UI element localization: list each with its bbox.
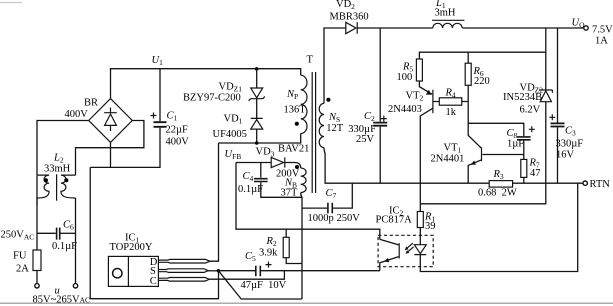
- svg-text:IN5234B: IN5234B: [503, 92, 542, 103]
- resistor R4 leads: [433, 101, 468, 103]
- capacitor C7 wire right to secondary rail: [333, 183, 352, 208]
- dot NB: [295, 165, 299, 169]
- dot L2 left winding: [44, 178, 48, 182]
- svg-text:1000p: 1000p: [308, 213, 334, 224]
- transformer T feedback winding NB: [301, 168, 306, 193]
- bridge rectifier BR: [89, 99, 133, 143]
- resistor R5: [416, 59, 422, 81]
- capacitor C8: [517, 137, 531, 140]
- wire R6 bottom to VT1 collector: [468, 85, 481, 148]
- terminal RTN: [583, 181, 587, 185]
- diode VD1 UF4005: [251, 118, 263, 129]
- wire VD1 bottom lead: [256, 129, 258, 143]
- wire secondary bottom lead and RTN rail left of R3: [324, 148, 489, 184]
- zener VDZ2 top lead: [545, 28, 547, 90]
- resistor R1: [417, 212, 423, 228]
- svg-text:2A: 2A: [16, 264, 29, 275]
- wire bridge right vertex to AC right: [76, 121, 144, 176]
- dot L2 right winding: [64, 178, 68, 182]
- terminal input right: [73, 284, 77, 288]
- bridge inner diode: [104, 108, 117, 132]
- capacitor C8 bottom lead: [523, 141, 525, 160]
- wire NB bottom to S-net vertical: [301, 193, 302, 299]
- capacitor C1: [154, 122, 167, 127]
- transistor VT1 2N4401 base bar: [481, 147, 483, 161]
- opto phototransistor base bar: [398, 243, 400, 258]
- svg-text:400V: 400V: [65, 109, 89, 120]
- IC1 TOP200Y body: [127, 256, 129, 286]
- pin S (source): [158, 269, 208, 273]
- wire AC input left lead below fuse: [36, 271, 38, 284]
- svg-text:16V: 16V: [556, 150, 575, 161]
- svg-text:250VAC: 250VAC: [1, 230, 35, 242]
- svg-text:UF4005: UF4005: [213, 129, 247, 140]
- wire top rail VD2 to L1: [357, 27, 433, 29]
- svg-text:1k: 1k: [446, 107, 457, 118]
- svg-text:33mH: 33mH: [44, 164, 71, 175]
- svg-text:400V: 400V: [166, 137, 190, 148]
- svg-text:6.2V: 6.2V: [520, 105, 541, 116]
- svg-text:NP: NP: [286, 89, 298, 101]
- svg-text:FU: FU: [13, 251, 27, 262]
- svg-text:250V: 250V: [337, 213, 361, 224]
- wire VT1 emitter to rail: [468, 160, 481, 183]
- svg-text:C7: C7: [326, 188, 337, 200]
- transformer T core: [312, 72, 315, 193]
- wire S junction diagonal to bottom rail 2: [219, 271, 303, 299]
- wire bridge bottom vertex down: [110, 142, 112, 167]
- resistor R1 top lead: [419, 204, 421, 212]
- capacitor C2: [373, 123, 387, 126]
- capacitor C2 top lead: [379, 28, 381, 122]
- wire U1 rail: [111, 69, 301, 99]
- svg-text:T: T: [307, 55, 314, 66]
- terminal output U0: [584, 26, 588, 30]
- svg-text:0.68 2W: 0.68 2W: [478, 188, 517, 199]
- svg-text:2N4403: 2N4403: [388, 104, 422, 115]
- inductor L2 right winding: [61, 175, 76, 198]
- wire VT1 base to R7/C8 node: [482, 154, 523, 156]
- capacitor C5: [256, 266, 260, 277]
- wire VDZ2 bottom through rail to R1 feed: [420, 102, 546, 204]
- wire VD3 to NB top: [285, 163, 301, 169]
- resistor R4: [439, 98, 462, 105]
- svg-text:UO: UO: [572, 18, 586, 30]
- svg-text:MBR360: MBR360: [330, 12, 369, 23]
- transformer T secondary Ns: [319, 103, 324, 147]
- svg-text:47: 47: [530, 168, 541, 179]
- faint top-left scan artifact: [0, 2, 22, 4]
- svg-text:0.1µF: 0.1µF: [238, 184, 263, 195]
- node S junction: [217, 269, 221, 273]
- wire drain rail: [219, 134, 301, 144]
- transistor VT2 2N4403 base bar: [432, 90, 434, 114]
- svg-text:U1: U1: [152, 55, 164, 67]
- plus C8: [529, 126, 535, 132]
- svg-text:47µF 10V: 47µF 10V: [241, 280, 287, 291]
- svg-text:1µF: 1µF: [507, 138, 524, 149]
- wire VT2 collector: [420, 108, 433, 204]
- svg-text:3.9k: 3.9k: [259, 248, 278, 259]
- terminal input left: [35, 284, 39, 288]
- svg-text:R3: R3: [493, 169, 504, 181]
- resistor R3: [489, 181, 512, 188]
- svg-text:2N4401: 2N4401: [431, 154, 465, 165]
- inductor L2 left winding: [37, 175, 49, 205]
- capacitor C6: [57, 228, 60, 240]
- plus C2: [381, 116, 387, 122]
- wire AC input right lead: [75, 198, 77, 283]
- capacitor C2 bottom lead: [379, 127, 381, 184]
- svg-text:22µF: 22µF: [166, 125, 189, 136]
- capacitor C1 top lead: [159, 69, 161, 122]
- wire S junction to C5: [219, 270, 256, 272]
- resistor R2: [283, 237, 289, 257]
- inductor L2 core: [56, 174, 58, 200]
- opto phototransistor collector entry: [380, 239, 399, 245]
- svg-text:BZY97-C200: BZY97-C200: [183, 93, 241, 104]
- resistor R7: [521, 159, 527, 177]
- wire primary return box left and bottom: [90, 167, 218, 298]
- svg-text:C3: C3: [565, 126, 576, 138]
- diode VD2 MBR360: [346, 22, 357, 33]
- svg-text:RTN: RTN: [590, 179, 611, 190]
- wire VDZ1 top lead: [256, 69, 258, 88]
- node VDZ1 top junction: [255, 67, 259, 71]
- svg-text:BAV21: BAV21: [278, 144, 309, 155]
- svg-text:220: 220: [474, 76, 490, 87]
- svg-text:100: 100: [397, 72, 413, 83]
- wire UFB rail: [236, 162, 271, 164]
- svg-text:VD2: VD2: [336, 0, 355, 11]
- dot Ns: [326, 98, 330, 102]
- resistor R2 bottom jog to S net: [286, 258, 302, 264]
- plus C1: [151, 113, 157, 119]
- pin C (control): [158, 278, 209, 282]
- resistor R2 top lead: [285, 229, 287, 237]
- opto light arrow 2: [408, 247, 414, 252]
- wire C8 top feed: [468, 123, 524, 136]
- wire C5 to opto emitter: [261, 270, 380, 272]
- opto light arrow 1: [407, 243, 413, 248]
- capacitor C3 top lead: [557, 28, 559, 123]
- opto LED: [414, 245, 426, 255]
- svg-text:C5: C5: [245, 251, 256, 263]
- arrow VT2 emitter (PNP): [426, 90, 432, 95]
- resistor R6: [465, 63, 471, 85]
- svg-text:C6: C6: [63, 220, 74, 232]
- svg-text:12T: 12T: [326, 123, 344, 134]
- svg-text:C1: C1: [167, 111, 178, 123]
- wire UFB left edge and opto collector rail: [236, 163, 380, 240]
- IC1 TOP200Y tab: [108, 256, 158, 286]
- diode VD3 BAV21: [271, 157, 285, 167]
- wire bridge left vertex to AC left: [37, 121, 89, 176]
- wire R5/R6 top feed: [419, 52, 545, 59]
- inductor L1 core bar: [432, 19, 464, 21]
- svg-text:330µF: 330µF: [556, 139, 584, 150]
- wire RTN rail right of R3: [513, 182, 583, 184]
- capacitor C7 wire left: [302, 207, 327, 209]
- svg-text:BR: BR: [84, 98, 98, 109]
- wire VDZ1 to VD1: [256, 99, 258, 119]
- svg-text:UFB: UFB: [225, 149, 242, 161]
- svg-text:C2: C2: [364, 111, 375, 123]
- svg-text:39: 39: [425, 221, 436, 232]
- svg-text:1A: 1A: [595, 36, 608, 47]
- svg-text:C4: C4: [243, 171, 254, 183]
- capacitor C3 bottom lead: [557, 127, 559, 183]
- pin D (drain): [158, 259, 209, 263]
- plus C3: [549, 114, 555, 120]
- capacitor C6 wire right: [61, 232, 76, 234]
- wire secondary top lead: [324, 28, 346, 103]
- svg-text:136T: 136T: [284, 105, 307, 116]
- wire D pin to drain vertical: [210, 143, 219, 261]
- capacitor C4 top lead: [260, 163, 262, 178]
- svg-text:R2: R2: [266, 236, 277, 248]
- svg-text:PC817A: PC817A: [376, 215, 413, 226]
- svg-text:VD1: VD1: [224, 114, 243, 126]
- wire LED cathode to RTN: [420, 183, 577, 271]
- fuse FU: [33, 250, 41, 271]
- wire C pin to C net: [209, 271, 284, 280]
- capacitor C7: [328, 203, 332, 214]
- capacitor C6 wire left: [37, 232, 56, 234]
- svg-text:3mH: 3mH: [435, 8, 456, 19]
- capacitor C4: [254, 179, 268, 182]
- transformer T primary Np: [301, 75, 307, 133]
- svg-text:VD3: VD3: [256, 147, 275, 159]
- wire AC input left lead (fuse branch): [36, 175, 38, 250]
- dot Np: [295, 122, 299, 126]
- opto phototransistor emitter: [380, 257, 399, 271]
- resistor R6 top lead: [467, 52, 469, 63]
- svg-text:R4: R4: [445, 88, 456, 100]
- zener VDZ1 BZY97-C200: [249, 88, 265, 101]
- wire R5 bottom to VT2 emitter: [419, 81, 432, 94]
- wire R1 bottom to LED anode: [419, 228, 421, 245]
- bottom page rule: [0, 302, 613, 304]
- svg-text:7.5V: 7.5V: [592, 25, 613, 36]
- plus C5: [266, 262, 272, 268]
- wire top rail L1 to output: [462, 27, 583, 29]
- optocoupler IC2 dashed box: [378, 235, 433, 266]
- arrow VT1 emitter (NPN): [471, 161, 476, 165]
- wire S pin to S junction: [208, 270, 218, 272]
- resistor R7 bottom lead: [523, 177, 525, 183]
- capacitor C3: [551, 123, 565, 126]
- svg-text:VT2: VT2: [406, 91, 424, 103]
- svg-text:25V: 25V: [356, 134, 375, 145]
- capacitor C4 bottom lead: [261, 182, 302, 197]
- inductor L1: [433, 23, 462, 28]
- zener VDZ2 IN5234B: [539, 90, 553, 102]
- svg-text:C: C: [150, 276, 157, 287]
- arrow opto emitter: [384, 258, 389, 262]
- svg-text:0.1µF: 0.1µF: [52, 241, 77, 252]
- node VD1 bottom junction: [255, 141, 259, 145]
- IC1 TOP200Y tab hole: [113, 269, 122, 278]
- capacitor C1 bottom lead and return wire to box: [90, 128, 160, 168]
- svg-text:TOP200Y: TOP200Y: [110, 242, 153, 253]
